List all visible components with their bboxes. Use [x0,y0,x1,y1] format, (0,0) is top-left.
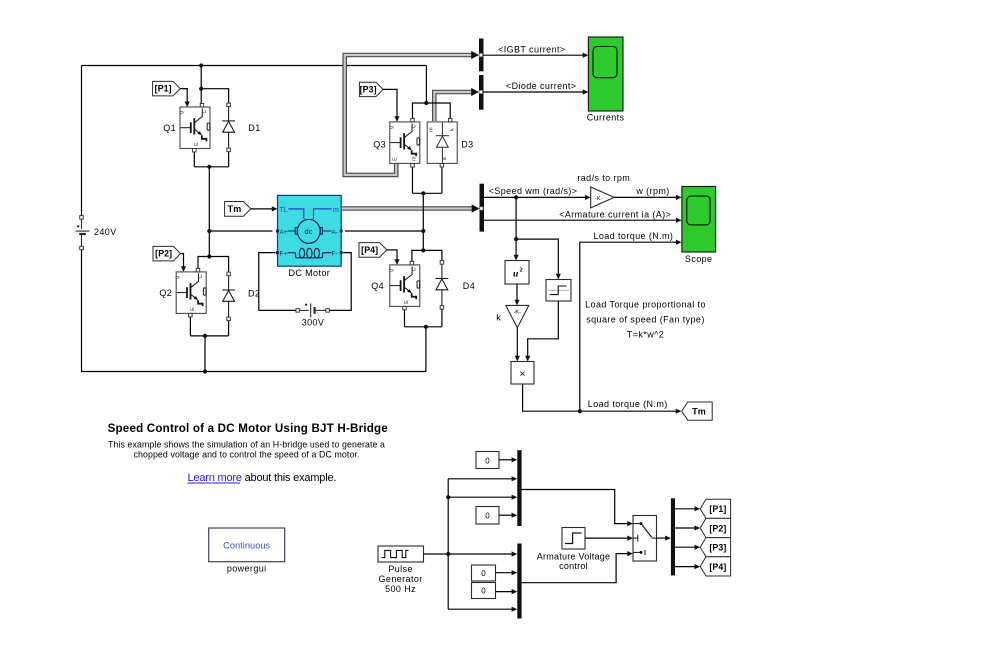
svg-text:×: × [519,368,525,380]
switch block [633,516,657,562]
constant 0 (mux2 in2) [472,565,496,581]
svg-text:Learn more about this example.: Learn more about this example. [188,472,337,484]
wire: Load torque up to Scope in3 [580,242,677,411]
junction: load torque tee [578,409,582,413]
wire: branch to D1 top [201,89,228,105]
battery E2 300V [300,303,326,317]
svg-text:Load torque (N.m): Load torque (N.m) [594,231,674,241]
wire: step to switch in2 [585,537,628,539]
svg-text:D1: D1 [248,123,260,133]
constant 0 (mux2 in3) [472,583,496,599]
junction: speed branch [514,195,518,199]
pulse generator block [378,546,424,562]
goto tag Tm [682,402,713,420]
svg-text:square of speed (Fan type): square of speed (Fan type) [586,315,704,325]
svg-text:-K-: -K- [514,310,522,316]
svg-text:300V: 300V [302,318,325,328]
port: Q2 C [196,268,200,272]
goto tag [P3] [700,538,730,557]
diode D4 [436,262,449,307]
svg-text:powergui: powergui [227,564,267,574]
junction: pulse tee [446,552,450,556]
junction: right leg top [424,101,428,105]
junction: riser mid [446,495,450,499]
wire: P4 to Q4 gate [387,250,397,260]
wire: Q4 E / D4 bottom node to rail riser [405,309,442,326]
scope Scope [682,187,716,253]
svg-text:k: k [450,128,456,131]
junction: node B / Q4 [421,248,425,252]
svg-text:A-: A- [332,229,338,236]
bus selector 3 (motor signals) [480,184,485,232]
from tag Tm (motor torque input) [225,202,251,217]
wire: P3 to Q3 gate [383,89,397,117]
svg-text:[P1]: [P1] [709,504,726,514]
junction: Q1C/D1 [199,87,203,91]
svg-text:g: g [388,126,394,129]
svg-text:C: C [198,274,204,278]
wire: product to Tm goto [523,384,677,411]
wire: Diode current to Currents scope [484,91,584,93]
svg-text:dc: dc [305,227,313,236]
port: Q1 E [193,148,197,152]
bus selector 2 (Diode current) [479,75,484,110]
port: D3 k [448,118,452,122]
svg-text:g: g [175,276,181,279]
svg-text:[P3]: [P3] [709,543,726,553]
svg-text:Generator: Generator [379,574,423,584]
svg-text:u: u [513,269,518,279]
transistor Q3 (IGBT) [388,122,420,163]
svg-text:[P1]: [P1] [155,84,172,94]
bus: Diode current measurement (D3 m to selector 2) [434,92,472,121]
DC Motor block [276,195,343,266]
wire: const4 to mux2 [496,591,513,593]
svg-text:500 Hz: 500 Hz [385,584,416,594]
svg-text:D4: D4 [463,281,475,291]
svg-text:Tm: Tm [692,406,706,416]
junction: Q2/D2 bottom [203,334,207,338]
product block [511,362,534,385]
svg-text:E: E [404,300,410,304]
svg-text:C: C [412,267,418,271]
svg-text:[P3]: [P3] [360,84,377,94]
svg-text:E: E [392,157,398,161]
svg-text:Q4: Q4 [371,281,384,291]
transistor Q1 (IGBT) [179,107,211,149]
diode D3 (with measurement box) [427,122,457,163]
svg-text:g: g [388,269,394,272]
wire: const3 to mux2 [496,572,513,574]
junction: node A / Q2 [207,254,211,258]
svg-text:0: 0 [485,512,490,521]
svg-text:0: 0 [485,456,490,465]
wire: switch to demux [657,537,667,539]
transistor Q4 (IGBT) [388,265,420,307]
wire: Q1 collector drop from rail [200,66,202,105]
constant 0 (mux1 in1) [476,452,499,469]
port: Q1 C [200,103,204,107]
wire: gain to Scope in1 [614,196,677,198]
svg-text:rad/s to rpm: rad/s to rpm [577,173,630,183]
goto tag [P4] [700,557,730,576]
svg-text:TL: TL [280,207,288,214]
port: Q2 E [189,313,193,317]
svg-text:g: g [179,111,185,114]
wire: motor F- loop to 300V battery [330,253,352,311]
wire: left leg vertical node A [208,167,210,257]
svg-text:<Armature current ia (A)>: <Armature current ia (A)> [559,209,671,219]
junction: node B top [421,191,425,195]
svg-text:0: 0 [481,587,486,596]
battery E1 240V [76,217,90,248]
wire: P1 to Q1 gate [180,89,187,103]
mux 1 [517,450,521,526]
wire: riser from pulse tee [447,479,449,609]
svg-text:Currents: Currents [587,113,625,123]
svg-text:m: m [429,127,435,132]
scope Currents [588,37,623,111]
svg-text:m: m [333,207,339,214]
port: D2 top [227,272,231,276]
transistor Q2 (IGBT) [175,272,207,314]
wire: Q3 E and D3 a down to node B [413,167,442,193]
svg-text:A+: A+ [280,229,288,236]
svg-text:Scope: Scope [685,254,713,264]
wire: pulse generator output tree [424,553,513,555]
junction: rail/Q1 [199,63,203,67]
gain k (down) [506,305,529,327]
svg-text:[P2]: [P2] [155,249,172,259]
junction: node A / A+ [207,229,211,233]
svg-text:control: control [559,561,588,571]
port: battery 300V right [326,309,330,313]
svg-text:This example shows the simulat: This example shows the simulation of an … [108,440,385,450]
mux 2 [517,544,521,619]
svg-text:F-: F- [332,250,338,257]
wire: IGBT current to Currents scope [484,54,584,56]
port: Q3 E [411,163,415,167]
port: battery 240V top [80,216,84,220]
relay block [546,280,571,302]
wire: 240V battery - down, bottom rail, up to Q4/D4 node [82,250,426,372]
junction: Q4/D4 bottom [424,325,428,329]
diode D2 [222,274,235,319]
wire: mux1 output to switch in1 [522,490,629,524]
svg-text:0: 0 [481,569,486,578]
svg-text:T=k*w^2: T=k*w^2 [627,330,664,340]
port: Q3 C [411,118,415,122]
wire: riser to mux1 in3 [448,496,512,498]
junction: branch to relay [514,237,518,241]
diode D1 [222,105,235,150]
svg-text:w (rpm): w (rpm) [635,186,669,196]
svg-text:DC Motor: DC Motor [288,268,330,278]
svg-text:Q2: Q2 [159,288,172,298]
svg-text:[P2]: [P2] [709,523,726,533]
svg-text:Pulse: Pulse [388,564,413,574]
svg-text:2: 2 [520,266,523,273]
svg-text:a: a [442,157,448,160]
step block Armature Voltage control [562,528,585,550]
port: D1 top [227,103,231,107]
wire: Q1 emitter and D1 bottom to node A [194,150,228,167]
port: D4 bottom [440,306,444,310]
svg-text:[P4]: [P4] [709,562,726,572]
wire: demux to goto P3 [675,546,695,548]
wire: motor F+ loop to 300V battery [259,253,296,311]
wire: left rail down to 240V battery + port [81,66,83,216]
wire: node A to D2 top [209,257,228,272]
wire: node A to Q2 collector [198,257,209,270]
junction: node B / A- [421,229,425,233]
svg-text:k: k [496,312,501,322]
port: D2 bottom [227,317,231,321]
svg-text:-K-: -K- [595,196,603,202]
port: D1 bottom [227,148,231,152]
svg-text:E: E [194,142,200,146]
svg-text:Speed Control of a DC Motor Us: Speed Control of a DC Motor Using BJT H-… [108,422,389,435]
port: D4 top [440,261,444,265]
wire: top DC rail from left rail to right leg [82,65,427,67]
svg-text:Tm: Tm [228,204,242,214]
wire: Speed wm output to gain [484,196,586,198]
from tag [P4] [359,243,387,258]
wire: Tm to motor TL [251,208,273,210]
from tag [P2] [153,246,181,261]
svg-text:chopped voltage and to control: chopped voltage and to control the speed… [133,450,359,460]
wire: right leg vertical node B [422,193,424,250]
wire: riser to mux2 in4 [448,608,512,610]
wire: node A to motor A+ [209,230,272,232]
from tag [P3] [359,82,383,96]
wire: motor A- to node B [345,230,423,232]
gain rad/s to rpm [591,187,614,208]
wire: right leg drop from top rail [425,66,427,104]
wire: relay to product [528,301,559,357]
goto tag [P2] [700,518,730,537]
svg-text:E: E [190,307,196,311]
wire: Armature current to Scope in2 [484,219,677,221]
bus selector 1 (IGBT current) [479,39,484,72]
bus: motor measurement m to selector 3 [342,206,473,211]
wire: demux to goto P2 [675,527,695,529]
svg-text:Q1: Q1 [163,123,176,133]
constant 0 (mux1 in4) [476,507,499,525]
port: battery 240V bottom [80,246,84,250]
svg-text:[P4]: [P4] [361,245,378,255]
wire: mux2 output to switch in3 [522,554,629,583]
wire: const1 to mux1 [499,459,512,461]
svg-text:Load torque (N.m): Load torque (N.m) [588,399,668,409]
wire: u2 to gain k [516,284,518,301]
wire: riser to mux1 in2 [448,478,512,480]
wire: to D3 cathode [426,103,450,120]
svg-text:D3: D3 [461,140,473,150]
svg-text:m: m [412,156,418,161]
svg-text:F+: F+ [280,250,288,257]
svg-text:Continuous: Continuous [223,540,270,550]
svg-text:<Diode current>: <Diode current> [506,81,577,91]
svg-text:<Speed wm (rad/s)>: <Speed wm (rad/s)> [489,186,578,196]
goto tag [P1] [700,499,730,518]
wire: demux to goto P4 [675,566,695,568]
math function u^2 [505,261,529,285]
wire: node B to D4 top [423,250,442,260]
wire: speed branch down to u2 [515,197,517,256]
wire: gain k to product [516,328,518,357]
port: Q4 C [410,261,414,265]
wire: to Q3 collector [413,103,427,120]
svg-text:C: C [202,110,208,114]
svg-text:Load Torque proportional to: Load Torque proportional to [585,300,706,310]
wire: Q2 emitter / D2 bottom to bottom rail [190,317,228,372]
powergui block [209,528,285,562]
port: D3 a [440,163,444,167]
svg-text:240V: 240V [94,227,117,237]
wire: const2 to mux1 [499,514,512,516]
bus: IGBT current measurement (Q3 m to selector 1) [345,55,473,175]
wire: node B to Q4 collector [412,250,423,262]
junction: bottom rail [203,369,207,373]
svg-text:Q3: Q3 [373,140,386,150]
port: battery 300V left [296,309,300,313]
svg-text:<IGBT current>: <IGBT current> [498,44,565,54]
demux [671,498,675,575]
wire: demux to goto P1 [675,508,695,510]
port: Q4 E [403,306,407,310]
wire: branch to relay [516,239,558,275]
svg-text:C: C [412,124,418,128]
from tag [P1] [153,81,181,96]
junction: node A top [207,165,211,169]
wire: P2 to Q2 gate [181,254,184,268]
